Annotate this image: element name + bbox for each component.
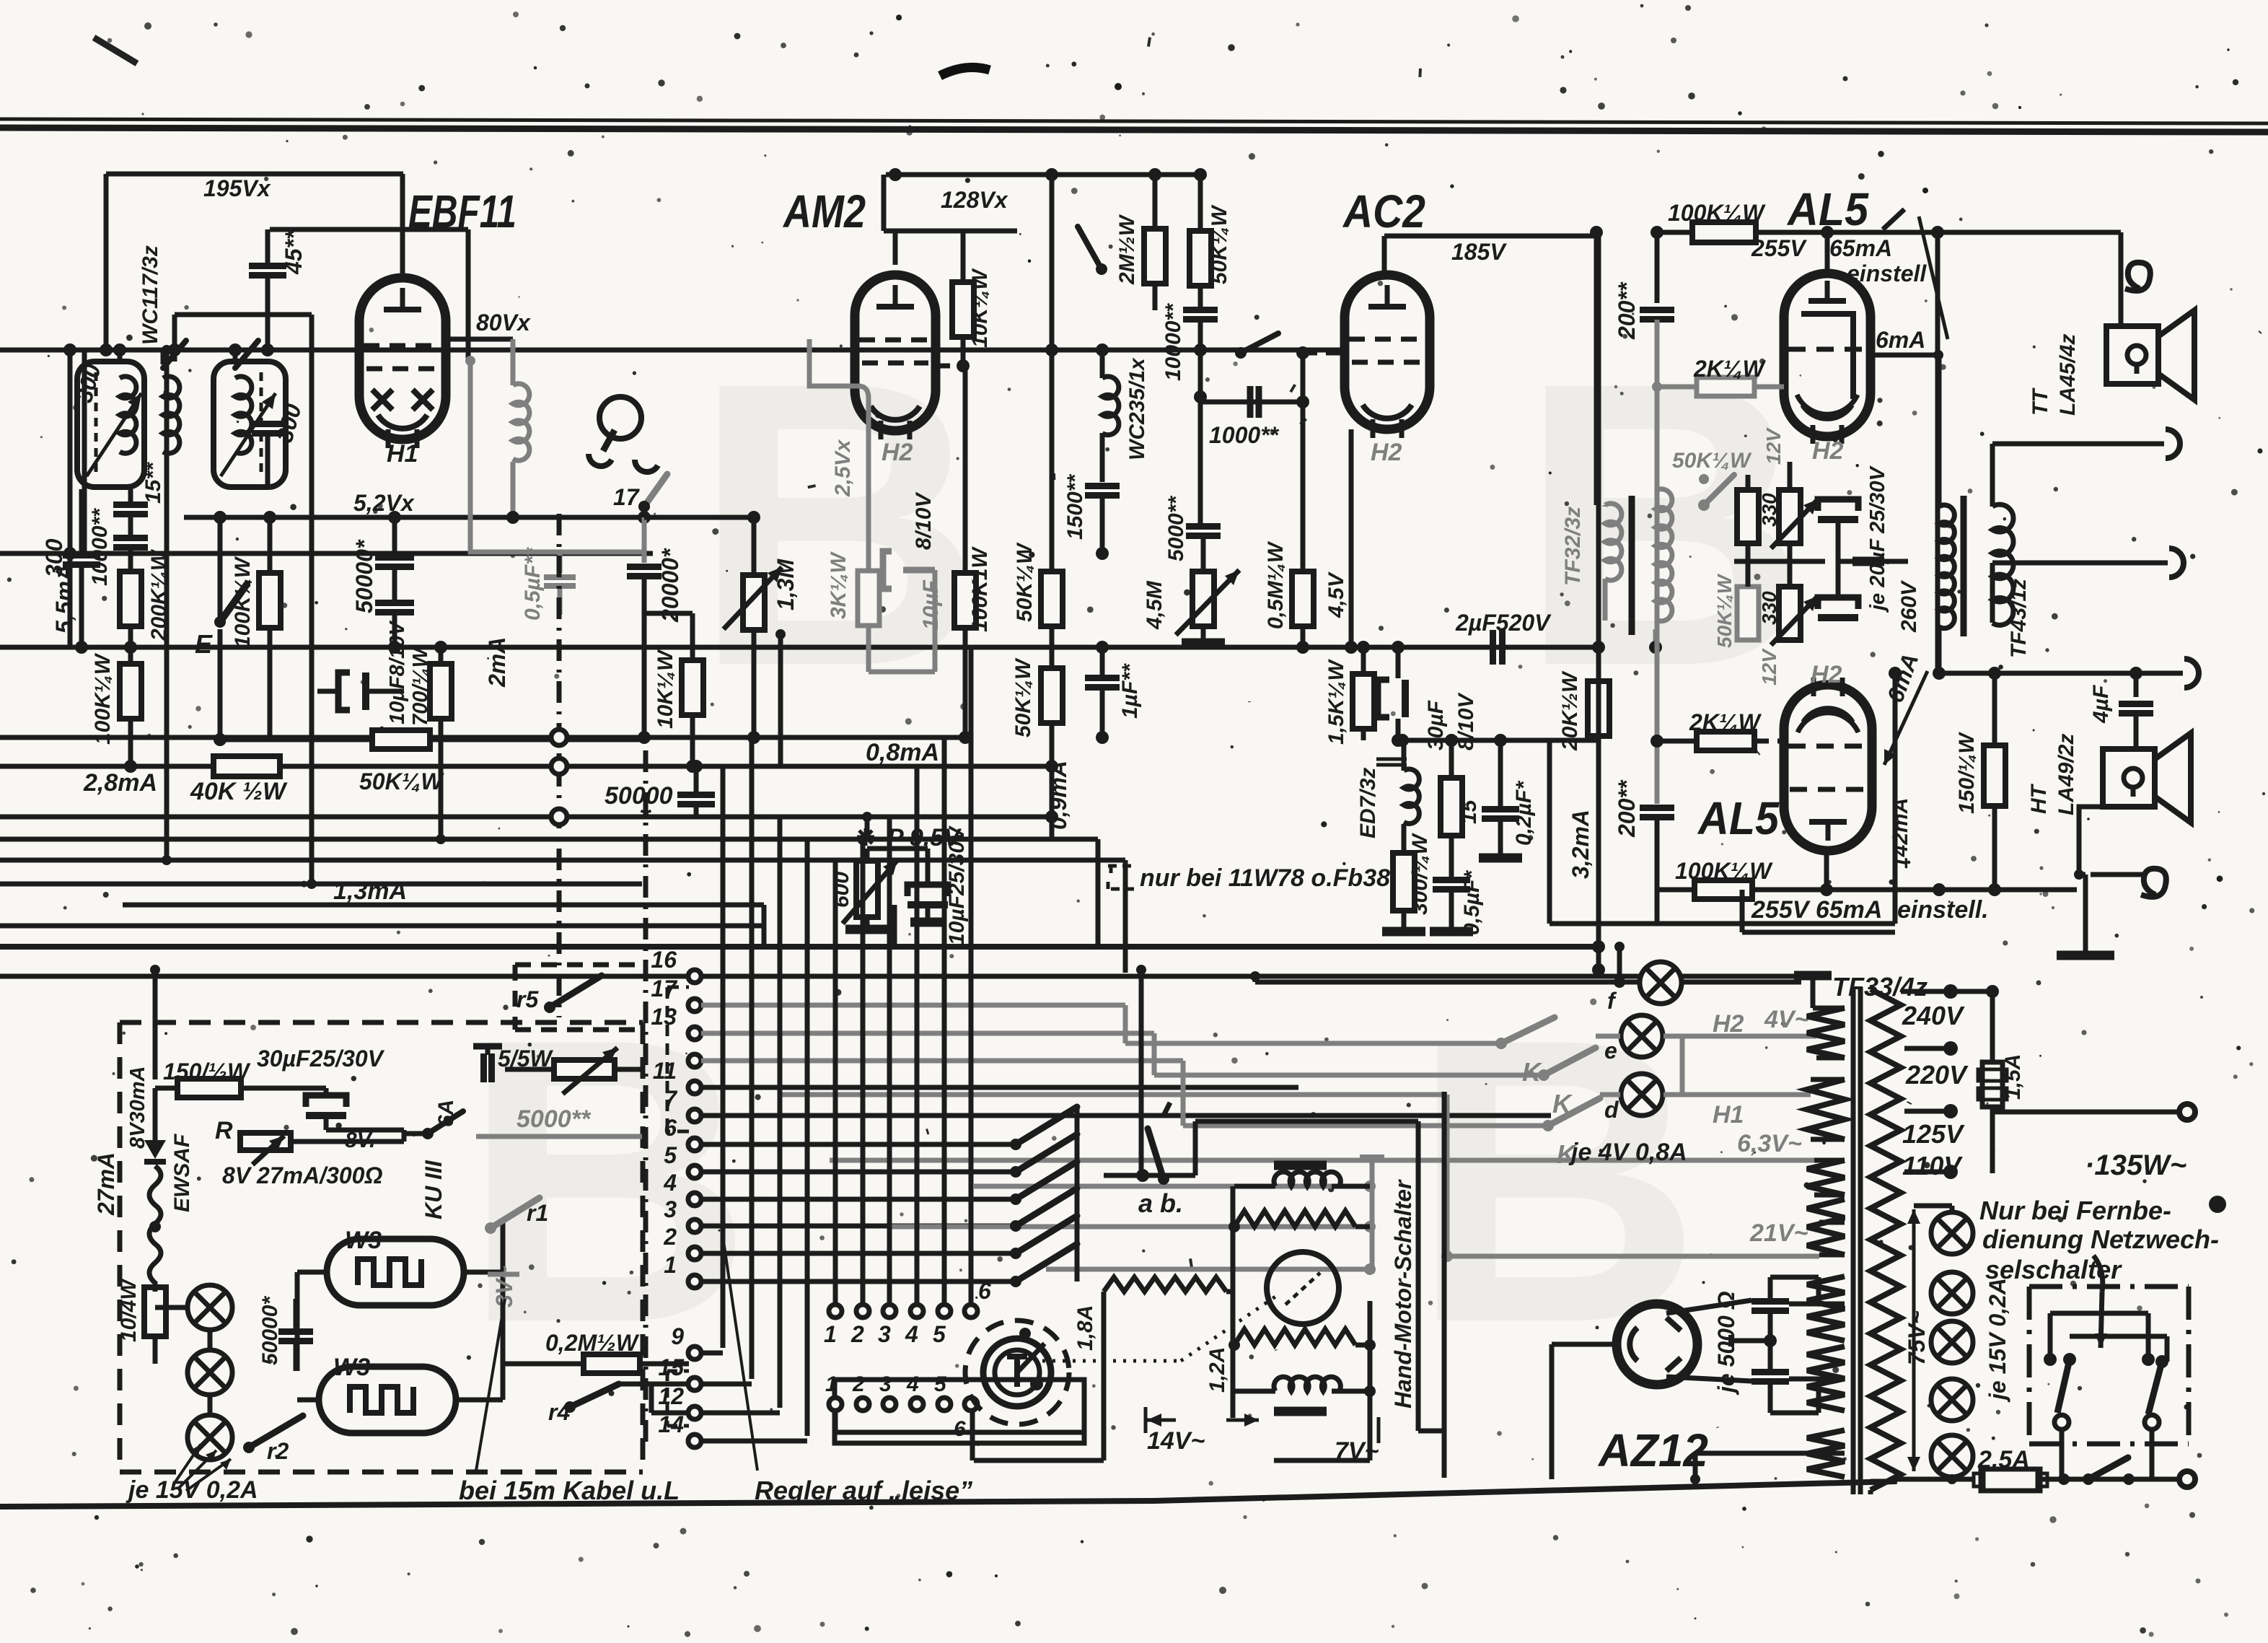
svg-text:5,5mA: 5,5mA bbox=[51, 564, 77, 634]
resistor 2M 1/2W bbox=[1144, 229, 1166, 284]
wire 3,2mA bbox=[1596, 236, 1601, 970]
resistor 15 bbox=[1441, 778, 1462, 836]
svg-text:6,3V~: 6,3V~ bbox=[1737, 1130, 1802, 1157]
svg-text:1500**: 1500** bbox=[1063, 474, 1087, 540]
potentiometer 1,3M bbox=[743, 575, 765, 630]
svg-text:100K¼W: 100K¼W bbox=[231, 556, 255, 648]
bus 897 bbox=[0, 645, 1601, 650]
dashed box r5 bbox=[515, 963, 643, 968]
svg-text:7V~: 7V~ bbox=[1335, 1437, 1379, 1465]
svg-text:16: 16 bbox=[651, 947, 677, 973]
resistor 40K 1/2W bbox=[214, 756, 280, 776]
wire bbox=[161, 350, 166, 364]
svg-text:100K¼W: 100K¼W bbox=[1668, 200, 1766, 226]
resistor 2K 1/4W gray bbox=[1697, 377, 1754, 396]
lamp f bbox=[1640, 962, 1682, 1004]
svg-text:E: E bbox=[195, 629, 213, 659]
svg-text:1: 1 bbox=[825, 1372, 838, 1396]
remote switch b bbox=[2142, 1353, 2155, 1366]
svg-text:W3: W3 bbox=[345, 1227, 382, 1254]
svg-text:30µF25/30V: 30µF25/30V bbox=[257, 1046, 385, 1072]
svg-text:40K ½W: 40K ½W bbox=[190, 778, 288, 805]
potentiometer 5/5W bbox=[554, 1060, 615, 1079]
svg-text:10000**: 10000** bbox=[1161, 303, 1185, 381]
fuse 1,5A bbox=[1990, 991, 1995, 1062]
capacitor je5000 b bbox=[1751, 1369, 1789, 1375]
wire 195Vx frame bbox=[106, 172, 403, 177]
svg-text:LA49/2z: LA49/2z bbox=[2054, 734, 2078, 815]
resistor 700 1/4W bbox=[430, 664, 452, 719]
capacitor 10000** bbox=[113, 535, 148, 541]
wire 6mA bbox=[1871, 353, 1938, 358]
bus 1344 bbox=[0, 974, 695, 979]
svg-text:4: 4 bbox=[663, 1170, 677, 1196]
lamp column 75V bbox=[1931, 1212, 1973, 1254]
capacitor 45** bbox=[249, 263, 286, 269]
transformer TF43/1z bbox=[1937, 355, 1942, 507]
svg-text:Nur bei Fernbe-: Nur bei Fernbe- bbox=[1979, 1196, 2171, 1225]
tube EBF11 bbox=[359, 278, 446, 439]
capacitor 300 right bbox=[252, 421, 283, 427]
potentiometer 330 c bbox=[1779, 587, 1801, 640]
bus 1163 bbox=[0, 837, 1098, 842]
diode EWSAF bbox=[153, 1088, 158, 1140]
wire lamp out bbox=[1680, 1036, 1685, 1095]
resistor 200K 1/4W bbox=[120, 571, 141, 626]
bus 1062 bbox=[0, 764, 1052, 769]
svg-text:5: 5 bbox=[933, 1321, 946, 1347]
wire ground bbox=[2079, 807, 2103, 875]
svg-text:·135W~: ·135W~ bbox=[2085, 1149, 2186, 1181]
wire gray h1 bbox=[780, 1092, 1447, 1097]
electrolytic je20uF b bbox=[1818, 597, 1858, 609]
wire stair a bbox=[1096, 839, 1101, 947]
wire speaker top bbox=[1990, 444, 1995, 507]
capacitor 2uF 520V bbox=[1490, 630, 1496, 665]
svg-text:2,8mA: 2,8mA bbox=[83, 769, 157, 797]
svg-text:3K¼W: 3K¼W bbox=[827, 551, 850, 619]
tube AM2 bbox=[855, 275, 936, 431]
resistor 0,5M 1/4W bbox=[1292, 571, 1314, 626]
svg-text:3,2mA: 3,2mA bbox=[1568, 810, 1594, 879]
lamp d bbox=[1621, 1074, 1663, 1116]
wire gray 21 bbox=[1445, 1095, 1450, 1256]
resistor heater zig bbox=[1234, 1211, 1355, 1227]
lamps scale bbox=[188, 1285, 232, 1330]
svg-text:10000**: 10000** bbox=[88, 508, 112, 586]
capacitor 4uF bbox=[2134, 673, 2139, 697]
svg-text:4,5M: 4,5M bbox=[1143, 580, 1166, 630]
svg-text:50000*: 50000* bbox=[351, 539, 377, 613]
svg-text:10/4W: 10/4W bbox=[117, 1278, 141, 1342]
IF can 2 bbox=[214, 362, 286, 487]
svg-text:8V 27mA/300Ω: 8V 27mA/300Ω bbox=[222, 1162, 382, 1188]
wire 5,2Vx bbox=[184, 515, 754, 520]
wire 3 bbox=[701, 1224, 1016, 1229]
svg-text:dienung Netzwech-: dienung Netzwech- bbox=[1982, 1224, 2219, 1254]
svg-text:14V~: 14V~ bbox=[1147, 1427, 1205, 1455]
svg-text:128Vx: 128Vx bbox=[941, 187, 1008, 213]
switch K1 bbox=[1501, 1017, 1555, 1043]
wire cathode rail bbox=[1657, 888, 2077, 893]
wire mains bottom bbox=[1897, 1477, 1974, 1482]
svg-text:1,8A: 1,8A bbox=[1073, 1305, 1097, 1351]
resistor 20K 1/2W bbox=[1588, 681, 1609, 736]
bus 767 bbox=[0, 551, 653, 556]
vertical bundle B bbox=[833, 860, 838, 1305]
wire 1,3mA bbox=[123, 903, 764, 908]
resistor 150 1/4W bbox=[1984, 745, 2005, 806]
resistor 50K gray bbox=[1737, 587, 1759, 640]
switch r1 gray bbox=[491, 1198, 540, 1228]
svg-text:13: 13 bbox=[651, 1004, 677, 1030]
svg-text:75V~: 75V~ bbox=[1904, 1310, 1930, 1365]
svg-text:4,5V: 4,5V bbox=[1324, 571, 1348, 618]
wire 13 gray bbox=[701, 1031, 1154, 1036]
svg-text:10µF: 10µF bbox=[919, 579, 943, 630]
transformer TF32/3z bbox=[1594, 232, 1599, 505]
dotted link bbox=[1042, 1359, 1181, 1363]
wire gray grid bbox=[470, 361, 644, 552]
capacitor je5000 a bbox=[1751, 1298, 1789, 1305]
wire heater bottom bbox=[1693, 1453, 1698, 1479]
svg-text:6: 6 bbox=[978, 1278, 991, 1304]
svg-text:0,5µF*: 0,5µF* bbox=[1460, 870, 1484, 935]
wire 16 bbox=[701, 974, 1801, 979]
svg-text:einstell.: einstell. bbox=[1897, 896, 1989, 924]
svg-text:6mA: 6mA bbox=[1876, 327, 1925, 353]
svg-text:Regler auf „leise”: Regler auf „leise” bbox=[755, 1476, 972, 1505]
svg-text:a b.: a b. bbox=[1138, 1188, 1183, 1218]
wire grid bbox=[1303, 351, 1346, 356]
svg-text:45**: 45** bbox=[281, 229, 307, 275]
wire anode bbox=[400, 174, 405, 278]
svg-text:HT: HT bbox=[2027, 783, 2051, 814]
svg-text:50K¼W: 50K¼W bbox=[1013, 542, 1037, 622]
motor rotor bbox=[1267, 1252, 1339, 1324]
svg-text:142mA: 142mA bbox=[1889, 798, 1912, 869]
svg-text:125V: 125V bbox=[1902, 1119, 1965, 1149]
wire gray k2 bbox=[1152, 1033, 1157, 1075]
svg-text:r2: r2 bbox=[267, 1438, 289, 1464]
capacitor 0,2uF* bbox=[1482, 806, 1519, 812]
dash-dot box bbox=[2029, 1284, 2189, 1289]
svg-text:H1: H1 bbox=[387, 440, 418, 468]
tap 125V bbox=[1904, 1109, 1951, 1114]
winding HT a bbox=[1807, 1276, 1845, 1341]
resistor 100K 1/4W bbox=[1692, 222, 1756, 242]
svg-text:150/¼W: 150/¼W bbox=[1955, 732, 1979, 814]
svg-text:W3: W3 bbox=[333, 1354, 370, 1381]
svg-text:700/¼W: 700/¼W bbox=[409, 646, 432, 726]
svg-text:260V: 260V bbox=[1897, 579, 1921, 633]
svg-text:1,3M: 1,3M bbox=[773, 558, 799, 610]
svg-text:11: 11 bbox=[653, 1058, 677, 1084]
svg-text:je 15V 0,2A: je 15V 0,2A bbox=[126, 1476, 258, 1504]
tube AC2 bbox=[1345, 275, 1430, 429]
IF can 1 bbox=[77, 362, 144, 487]
wire 7 bbox=[701, 1113, 1551, 1118]
capacitor 200** bbox=[1655, 232, 1660, 303]
svg-text:1000**: 1000** bbox=[1209, 422, 1280, 448]
coil ED7/3z bbox=[1404, 769, 1419, 824]
wire B+ link bbox=[1617, 947, 1622, 982]
svg-text:150/½W: 150/½W bbox=[163, 1059, 251, 1085]
svg-text:H2: H2 bbox=[882, 439, 913, 466]
wire 6 bbox=[701, 1142, 1016, 1147]
svg-text:21V~: 21V~ bbox=[1749, 1219, 1808, 1247]
switch bank bbox=[1016, 1107, 1077, 1144]
wire gray motor a bbox=[974, 1184, 1370, 1189]
resistor 1,8A bbox=[1104, 1277, 1226, 1292]
resistor 50K 1/4W d bbox=[1041, 668, 1063, 723]
wire grid dash bbox=[936, 364, 963, 369]
svg-text:0,8mA: 0,8mA bbox=[866, 739, 939, 766]
svg-text:2µF520V: 2µF520V bbox=[1455, 610, 1552, 636]
gray T feed bbox=[1360, 1155, 1384, 1162]
bottom border line bbox=[0, 1481, 1896, 1507]
svg-text:1,3mA: 1,3mA bbox=[333, 877, 407, 905]
leader line bbox=[476, 1299, 505, 1471]
bus 1312 bbox=[0, 944, 1601, 950]
wire stair c bbox=[892, 905, 897, 947]
wire avc vertical b bbox=[309, 434, 315, 884]
svg-text:10µF8/10V: 10µF8/10V bbox=[386, 620, 409, 724]
svg-text:100K¼W: 100K¼W bbox=[91, 652, 115, 745]
svg-text:12: 12 bbox=[658, 1383, 684, 1409]
winding HT b bbox=[1807, 1346, 1845, 1411]
svg-text:2K¼W: 2K¼W bbox=[1693, 356, 1767, 382]
wire plate b bbox=[1770, 1411, 1819, 1416]
winding 6,3V bbox=[1807, 1079, 1845, 1139]
svg-text:1µF**: 1µF** bbox=[1118, 663, 1142, 719]
resistor 100K 1/4W b bbox=[259, 573, 281, 628]
svg-text:4µF: 4µF bbox=[2089, 685, 2113, 724]
svg-text:H1: H1 bbox=[1713, 1101, 1744, 1129]
wire stair b bbox=[1123, 860, 1128, 973]
capacitor 5/5W net bbox=[473, 1043, 502, 1050]
curl connector b bbox=[2141, 869, 2166, 897]
capacitor 10000** bbox=[1198, 286, 1203, 309]
svg-text:H2: H2 bbox=[1812, 437, 1844, 465]
transformer core bbox=[1851, 987, 1856, 1494]
svg-text:8V.-: 8V.- bbox=[345, 1129, 382, 1152]
wire plate a bbox=[1770, 1275, 1819, 1280]
winding heater AZ bbox=[1807, 1430, 1845, 1477]
dashed box r17 bbox=[666, 987, 669, 1131]
svg-text:AL5: AL5 bbox=[1697, 792, 1780, 844]
svg-text:330: 330 bbox=[1758, 591, 1780, 625]
lamp e bbox=[1621, 1015, 1663, 1057]
resistor 3K 1/4W gray bbox=[858, 571, 879, 626]
wire bbox=[644, 515, 754, 520]
wire gray 63 bbox=[830, 1158, 1814, 1163]
wires tone network bbox=[1734, 559, 1825, 564]
svg-text:5000**: 5000** bbox=[517, 1105, 592, 1133]
wire avc vertical a bbox=[164, 350, 170, 860]
wire 128Vx rail bbox=[886, 172, 1199, 178]
capacitor 1500** bbox=[1085, 483, 1120, 489]
capacitor 0,5uF** gray bbox=[558, 552, 563, 573]
wire frame 436 bbox=[175, 312, 312, 317]
svg-text:220V: 220V bbox=[1905, 1060, 1969, 1090]
winding 21V bbox=[1807, 1199, 1845, 1255]
svg-text:100K1W: 100K1W bbox=[968, 546, 992, 632]
wire cathode gray bbox=[809, 339, 869, 571]
capacitor 20000* bbox=[642, 517, 647, 563]
svg-text:3: 3 bbox=[878, 1321, 891, 1347]
resistor 50K 1/4W bbox=[372, 730, 430, 749]
motor unit core bbox=[1274, 1161, 1327, 1170]
wire 255V box bbox=[1742, 930, 1895, 935]
svg-text:EWSAF: EWSAF bbox=[170, 1134, 194, 1212]
switch ab bbox=[1104, 1173, 1195, 1178]
electrolytic 10uF 8/10V bbox=[338, 672, 350, 710]
svg-text:3: 3 bbox=[879, 1372, 892, 1396]
wire lamp f bbox=[1255, 980, 1639, 985]
svg-text:30µF: 30µF bbox=[1424, 700, 1448, 750]
svg-text:TF32/3z: TF32/3z bbox=[1561, 507, 1585, 586]
chassis feedthrough bbox=[557, 514, 562, 1017]
svg-text:5: 5 bbox=[934, 1372, 947, 1396]
rectifier funnel bbox=[1666, 1300, 1751, 1313]
tube W3 b bbox=[319, 1367, 456, 1433]
svg-text:1: 1 bbox=[824, 1321, 837, 1347]
tube AL5 bottom bbox=[1784, 685, 1872, 851]
svg-text:AM2: AM2 bbox=[782, 185, 866, 237]
svg-text:255V: 255V bbox=[1751, 235, 1807, 261]
resistor 300 1/4W bbox=[1393, 853, 1415, 911]
svg-text:AC2: AC2 bbox=[1342, 185, 1425, 237]
wire avc vertical c bbox=[439, 740, 444, 839]
svg-text:5,2Vx: 5,2Vx bbox=[353, 490, 415, 516]
svg-text:je 20µF 25/30V: je 20µF 25/30V bbox=[1866, 465, 1889, 613]
wire 4 bbox=[701, 1197, 1016, 1202]
potentiometer 330 b bbox=[1779, 490, 1801, 543]
resistor motor zig b bbox=[1234, 1329, 1355, 1345]
svg-text:4: 4 bbox=[905, 1321, 918, 1347]
tube AZ12 bbox=[1617, 1304, 1697, 1385]
switch gray bbox=[1704, 475, 1734, 505]
screen tbar bbox=[1794, 971, 1832, 981]
svg-text:e: e bbox=[1604, 1038, 1617, 1064]
svg-text:185V: 185V bbox=[1451, 239, 1507, 265]
svg-text:200**: 200** bbox=[1614, 779, 1640, 838]
motor frame bbox=[1416, 1121, 1421, 1431]
switch K3 bbox=[1548, 1098, 1600, 1126]
terminal row2 1-5 bbox=[835, 1380, 1084, 1443]
electrolytic 10uF 25/30V bbox=[867, 846, 928, 851]
capacitor 5000** bbox=[1186, 523, 1221, 530]
svg-text:AZ12: AZ12 bbox=[1597, 1424, 1708, 1476]
winding aux bbox=[1807, 1160, 1845, 1195]
svg-text:ED7/3z: ED7/3z bbox=[1356, 768, 1380, 838]
motor core b bbox=[1274, 1407, 1327, 1416]
svg-text:110V: 110V bbox=[1902, 1151, 1963, 1180]
svg-text:1,2A: 1,2A bbox=[1205, 1347, 1229, 1393]
svg-text:50K¼W: 50K¼W bbox=[1208, 204, 1231, 284]
wire 1 bbox=[701, 1279, 1016, 1284]
wire gray motor c bbox=[1046, 1267, 1370, 1272]
wire 12 bbox=[651, 1411, 689, 1416]
svg-text:2: 2 bbox=[663, 1224, 677, 1250]
motor left rail bbox=[1231, 1186, 1236, 1418]
svg-text:nur bei 11W78 o.Fb38: nur bei 11W78 o.Fb38 bbox=[1140, 864, 1390, 892]
svg-text:27mA: 27mA bbox=[93, 1152, 119, 1216]
label nur bei bbox=[1108, 866, 1134, 889]
wire 5 bbox=[701, 1170, 1016, 1175]
wire 6mA right bbox=[1938, 671, 2183, 676]
electrolytic 30uF 8/10V bbox=[1378, 680, 1389, 717]
tap 220V bbox=[1904, 1046, 1951, 1051]
svg-text:2: 2 bbox=[850, 1321, 864, 1347]
dashed box power bbox=[120, 1020, 643, 1025]
bus 1266 bbox=[0, 924, 764, 929]
svg-text:50K¼W: 50K¼W bbox=[1713, 573, 1736, 648]
electrolytic je20uF a bbox=[1818, 499, 1858, 511]
wire gray k3 bbox=[1181, 1061, 1186, 1126]
speaker HT bbox=[2103, 749, 2155, 807]
svg-text:1,5A: 1,5A bbox=[2001, 1054, 2025, 1100]
resistor 1,5K 1/4W bbox=[1353, 674, 1374, 729]
resistor 10K 1/4W bbox=[952, 282, 974, 337]
svg-text:4: 4 bbox=[906, 1372, 919, 1396]
capacitor 15** bbox=[113, 501, 148, 508]
svg-text:WC235/1x: WC235/1x bbox=[1125, 357, 1149, 460]
svg-text:r1: r1 bbox=[527, 1200, 548, 1226]
svg-text:2M½W: 2M½W bbox=[1115, 214, 1139, 285]
bus 1132 bbox=[0, 815, 1052, 820]
svg-text:65mA: 65mA bbox=[1829, 235, 1892, 261]
resistor 100K 1/4W b bbox=[1695, 880, 1752, 899]
remote switch a bbox=[2044, 1353, 2057, 1366]
svg-text:12V: 12V bbox=[1762, 427, 1785, 465]
coil WC235/1x bbox=[1102, 377, 1119, 435]
coil 80Vx bbox=[444, 337, 513, 342]
terminal row 1-5 bbox=[829, 1305, 842, 1318]
capacitor 1000** bbox=[1247, 386, 1254, 418]
arrow 75V bbox=[1912, 1209, 1916, 1227]
terminals 9 15 12 14 bbox=[688, 1346, 701, 1359]
primary winding bbox=[1871, 989, 1901, 1490]
svg-text:100K¼W: 100K¼W bbox=[1675, 858, 1773, 884]
svg-text:10K¼W: 10K¼W bbox=[654, 649, 677, 729]
electrolytic 10uF 8/10V gray bbox=[883, 551, 892, 589]
pickup jack bbox=[599, 397, 641, 439]
wire speaker bottom bbox=[1990, 563, 1995, 623]
capacitor 300 left bbox=[63, 552, 100, 558]
switch r2 bbox=[249, 1416, 303, 1447]
svg-text:300/¼W: 300/¼W bbox=[1408, 833, 1432, 915]
wire bbox=[118, 350, 123, 364]
svg-text:H2: H2 bbox=[1811, 661, 1842, 688]
wire 142mA bbox=[1893, 673, 1898, 924]
svg-text:H2: H2 bbox=[1371, 439, 1402, 466]
svg-text:6: 6 bbox=[954, 1417, 966, 1441]
capacitor 0,5uF* bbox=[1433, 877, 1470, 883]
svg-text:0,5µF**: 0,5µF** bbox=[521, 547, 545, 621]
bus 1225 bbox=[0, 882, 642, 887]
svg-text:Hand-Motor-Schalter: Hand-Motor-Schalter bbox=[1390, 1179, 1416, 1408]
svg-text:je 5000 Ω: je 5000 Ω bbox=[1713, 1291, 1739, 1396]
switch r5 bbox=[550, 976, 602, 1007]
svg-text:50K¼W: 50K¼W bbox=[359, 768, 444, 794]
svg-text:2mA: 2mA bbox=[484, 637, 510, 688]
wire cathode bbox=[1552, 1342, 1617, 1347]
tap 240V bbox=[1901, 989, 1992, 994]
svg-text:9: 9 bbox=[671, 1323, 684, 1349]
switch b bbox=[1241, 333, 1278, 353]
